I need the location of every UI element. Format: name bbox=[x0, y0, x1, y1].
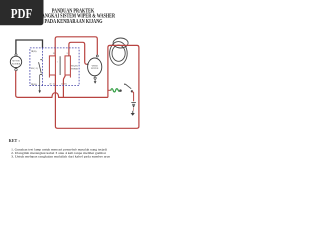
svg-text:3(+B): 3(+B) bbox=[61, 83, 67, 86]
svg-text:WA(H): WA(H) bbox=[71, 65, 78, 68]
svg-text:1: 1 bbox=[57, 62, 58, 64]
svg-text:KET :: KET : bbox=[9, 139, 20, 143]
svg-text:3. Untuk melepas rangkaian mul: 3. Untuk melepas rangkaian mulailah dari… bbox=[11, 154, 111, 158]
svg-text:WASHER: WASHER bbox=[12, 62, 21, 65]
svg-text:PDF: PDF bbox=[11, 6, 32, 21]
svg-text:2(+1): 2(+1) bbox=[49, 83, 54, 86]
svg-text:WIPER: WIPER bbox=[71, 69, 79, 71]
svg-text:MOTOR: MOTOR bbox=[91, 68, 99, 70]
svg-text:MOTOR: MOTOR bbox=[12, 61, 20, 63]
svg-text:WIPER: WIPER bbox=[92, 65, 99, 67]
svg-text:HI(W): HI(W) bbox=[31, 83, 37, 86]
svg-text:HI(B): HI(B) bbox=[31, 50, 37, 53]
svg-text:PADA KENDARAAN KIJANG: PADA KENDARAAN KIJANG bbox=[45, 19, 103, 25]
svg-text:LO(+1): LO(+1) bbox=[31, 67, 38, 70]
